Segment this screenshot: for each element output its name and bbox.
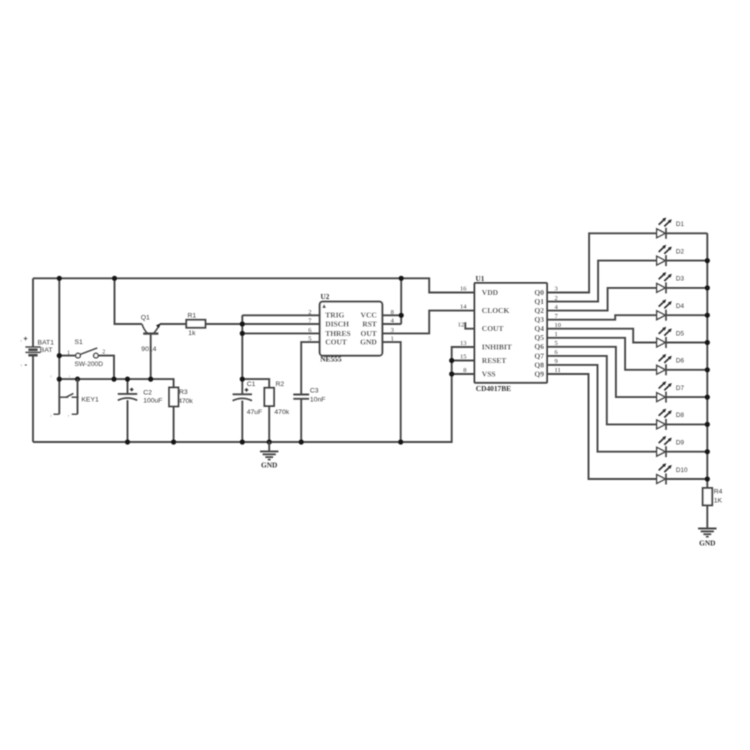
LED D7 <box>657 381 672 402</box>
wire U1 VSS pin8 stub <box>452 373 475 375</box>
label NE555 <box>320 355 342 364</box>
junction C2 node <box>125 377 130 382</box>
svg-text:VSS: VSS <box>482 369 496 378</box>
svg-text:C2: C2 <box>143 390 152 397</box>
wire Q1 emitter to R1 <box>160 323 187 325</box>
wire C2 bottom to ground rail <box>127 400 129 442</box>
svg-text:GND: GND <box>261 460 277 469</box>
label 9014 <box>141 346 156 353</box>
pushbutton KEY1 <box>54 379 79 414</box>
LED D6 <box>657 354 672 375</box>
svg-text:5: 5 <box>308 336 311 343</box>
label R2 <box>276 381 285 388</box>
U1 left pin names <box>482 288 512 379</box>
U1 left pin numbers <box>458 286 468 375</box>
LED D3 <box>657 272 672 293</box>
wire LED D9 cathode to right rail <box>666 451 707 453</box>
svg-text:COUT: COUT <box>325 338 347 347</box>
svg-text:1K: 1K <box>714 497 723 504</box>
svg-text:10nF: 10nF <box>310 397 326 404</box>
wire THRES to U2 pin6 <box>242 332 319 334</box>
svg-text:3: 3 <box>555 286 558 293</box>
junction ground rail / U2 GND <box>398 439 403 444</box>
label 1k <box>188 330 196 337</box>
capacitor C1 47uF electrolytic <box>233 388 252 401</box>
svg-text:2: 2 <box>308 309 311 316</box>
label C3 <box>310 387 319 394</box>
label D9 <box>676 440 685 447</box>
wire U1 Q6 to LED D7 anode <box>547 347 657 397</box>
junction top rail / S1 branch <box>57 276 62 281</box>
svg-text:1: 1 <box>391 336 394 343</box>
svg-text:470k: 470k <box>178 398 193 405</box>
wire U2 OUT pin3 to U1 CLOCK pin14 <box>382 311 474 334</box>
IC U1 CD4017BE body <box>475 283 548 383</box>
label 470k of R2 <box>274 409 289 416</box>
svg-text:8: 8 <box>463 367 466 374</box>
junction ground rail / C1 <box>240 439 245 444</box>
wire lower row to R3 <box>59 379 173 387</box>
label D1 <box>676 221 685 228</box>
wire Q1 base to lower row <box>150 334 152 380</box>
wire U2 VCC pin8 stub <box>382 314 401 316</box>
wire ground bottom rail <box>33 347 475 442</box>
label D6 <box>676 358 685 365</box>
svg-text:KEY1: KEY1 <box>81 397 99 404</box>
resistor R3 470k <box>169 388 178 407</box>
label 47uF <box>247 409 263 416</box>
svg-text:TRIG: TRIG <box>325 311 344 320</box>
svg-text:NE555: NE555 <box>320 355 342 364</box>
wire TRIG/THRES node vertical <box>241 315 243 394</box>
svg-text:2: 2 <box>102 349 105 355</box>
label BAT1 <box>38 340 55 347</box>
capacitor C3 10nF <box>293 395 309 399</box>
svg-text:10: 10 <box>555 322 562 329</box>
wire LED D7 cathode to right rail <box>666 396 707 398</box>
wire VCC top rail <box>33 278 475 292</box>
junction KEY1 right leg node <box>75 377 80 382</box>
junction top rail / VCC-RST branch <box>399 276 404 281</box>
label U1 <box>476 275 485 283</box>
wire LED D8 cathode to right rail <box>666 423 707 425</box>
svg-text:D6: D6 <box>676 358 685 365</box>
svg-text:Q4: Q4 <box>534 324 544 333</box>
wire R4 bottom to ground <box>706 505 708 528</box>
svg-text:Q9: Q9 <box>534 369 544 378</box>
svg-text:Q3: Q3 <box>534 315 544 324</box>
svg-text:Q1: Q1 <box>534 297 544 306</box>
resistor R2 470k <box>264 388 274 406</box>
U1 right pin names Q0-Q9 <box>534 288 544 379</box>
U2 right pin numbers 8 4 3 1 <box>391 309 395 343</box>
wire U1 Q5 to LED D6 anode <box>547 338 657 370</box>
resistor R4 1K <box>703 488 713 505</box>
svg-text:THRES: THRES <box>325 329 350 338</box>
svg-text:1: 1 <box>67 350 70 356</box>
svg-text:R3: R3 <box>179 389 188 396</box>
LED D2 <box>657 245 672 266</box>
label R4 <box>714 489 723 496</box>
junction right rail / D3 <box>705 285 710 290</box>
junction right rail / D4 <box>705 313 710 318</box>
wire VCC/RST vertical to top rail <box>400 278 402 324</box>
tiny pin marks near KEY1 and S1 nodes <box>21 339 72 418</box>
svg-text:GND: GND <box>360 338 377 347</box>
U2 left pin numbers 2 7 6 5 <box>308 309 312 343</box>
svg-text:2: 2 <box>555 295 558 302</box>
U2 left pin names <box>325 311 350 347</box>
svg-text:D4: D4 <box>676 303 685 310</box>
wire C1 bottom to ground rail <box>241 401 243 442</box>
svg-text:14: 14 <box>460 304 467 311</box>
LED D8 <box>657 409 672 430</box>
wire C2 top branch <box>127 379 129 394</box>
label S1 <box>75 339 84 346</box>
label GND right <box>699 538 715 547</box>
label R1 <box>188 312 197 319</box>
svg-text:D9: D9 <box>676 440 685 447</box>
svg-text:Q6: Q6 <box>534 342 544 351</box>
svg-text:D7: D7 <box>676 385 685 392</box>
wire left battery rail lower <box>32 355 34 442</box>
wire left battery rail upper <box>32 278 34 347</box>
U2 right pin names <box>360 311 377 347</box>
junction THRES node <box>240 331 245 336</box>
svg-text:U1: U1 <box>476 275 485 283</box>
svg-text:SW-200D: SW-200D <box>75 361 104 368</box>
LED D4 <box>657 299 672 320</box>
junction top rail / Q1 collector branch <box>112 276 117 281</box>
svg-text:Q0: Q0 <box>534 288 544 297</box>
wire U1 COUT pin12 stub <box>465 322 474 329</box>
svg-text:Q1: Q1 <box>141 315 150 322</box>
label D8 <box>676 412 685 419</box>
label D5 <box>676 330 685 337</box>
wire node to R2 branch <box>242 379 269 388</box>
wire U2 GND pin1 to ground rail <box>382 342 400 442</box>
wire LED D10 cathode to right rail <box>666 478 707 480</box>
wire R3 bottom to ground rail <box>173 406 175 442</box>
svg-text:DISCH: DISCH <box>325 319 349 328</box>
junction lower row left <box>57 377 62 382</box>
pin number 2 of S1 <box>102 349 105 355</box>
wire LED D4 cathode to right rail <box>666 314 707 316</box>
wire LED common right rail <box>706 233 708 488</box>
wire Q1 collector branch from top rail <box>115 278 142 324</box>
U1 right pin numbers <box>555 286 562 375</box>
svg-text:47uF: 47uF <box>247 409 263 416</box>
svg-text:Q2: Q2 <box>534 306 544 315</box>
svg-text:RESET: RESET <box>482 356 507 365</box>
label C2 <box>143 390 152 397</box>
IC U2 NE555 body <box>320 302 383 356</box>
pin number 1 of S1 <box>67 350 70 356</box>
ground symbol below R4 <box>698 529 716 537</box>
svg-text:VCC: VCC <box>361 311 377 320</box>
wire S1 pin2 to lower row <box>98 356 114 380</box>
wire LED D6 cathode to right rail <box>666 369 707 371</box>
label SW-200D <box>75 361 104 368</box>
junction VCC pin8 on vertical <box>399 313 404 318</box>
capacitor C2 100uF electrolytic <box>118 388 137 401</box>
svg-text:9014: 9014 <box>141 346 156 353</box>
svg-text:D10: D10 <box>676 467 688 474</box>
svg-text:Q7: Q7 <box>534 351 544 360</box>
label C1 <box>247 381 256 388</box>
wire TRIG to U2 pin2 <box>242 314 319 316</box>
wire S1 pin1 feed <box>59 355 75 357</box>
switch S1 SW-200D <box>76 348 99 358</box>
svg-text:9: 9 <box>555 358 558 365</box>
junction ground rail / C3 <box>299 439 304 444</box>
wire R1 to DISCH node <box>205 323 242 325</box>
label U2 <box>321 293 330 301</box>
wire U2 RST pin4 stub <box>382 323 401 325</box>
junction right rail / D9 <box>705 449 710 454</box>
label 100uF <box>143 397 162 404</box>
label D3 <box>676 276 685 283</box>
junction ground rail / C2 <box>125 439 130 444</box>
svg-text:Q5: Q5 <box>534 333 544 342</box>
junction ground rail / R3 <box>171 439 176 444</box>
wire U2 COUT pin5 to C3 <box>301 342 320 394</box>
svg-text:12: 12 <box>458 322 465 329</box>
svg-text:+: + <box>24 336 28 343</box>
svg-text:C3: C3 <box>310 387 319 394</box>
wire U1 Q9 to LED D10 anode <box>547 374 657 479</box>
label Q1 <box>141 315 150 322</box>
junction right rail / D6 <box>705 367 710 372</box>
wire R2 bottom to ground rail <box>268 406 270 442</box>
svg-text:BAT: BAT <box>40 347 53 354</box>
junction R1 / DISCH node <box>240 321 245 326</box>
svg-text:R1: R1 <box>188 312 197 319</box>
wire U1 Q1 to LED D2 anode <box>547 261 657 302</box>
wire U1 Q0 to LED D1 anode <box>547 233 657 292</box>
svg-text:470k: 470k <box>274 409 289 416</box>
svg-text:Q8: Q8 <box>534 360 544 369</box>
resistor R1 1k <box>186 320 205 328</box>
svg-text:C1: C1 <box>247 381 256 388</box>
junction ground rail / R2/GND <box>267 439 272 444</box>
svg-text:RST: RST <box>362 319 377 328</box>
transistor Q1 9014 NPN <box>142 323 161 333</box>
wire U1 Q2 to LED D3 anode <box>547 288 657 311</box>
svg-text:U2: U2 <box>321 293 330 301</box>
svg-text:100uF: 100uF <box>143 397 162 404</box>
wire LED D5 cathode to right rail <box>666 342 707 344</box>
label D2 <box>676 248 685 255</box>
wire U1 RESET pin15 stub <box>452 360 475 362</box>
junction U1 VSS on vertical <box>449 371 454 376</box>
wire LED D1 cathode to right rail <box>666 232 707 234</box>
svg-text:11: 11 <box>555 367 561 374</box>
wire LED D2 cathode to right rail <box>666 260 707 262</box>
junction C1 / R2 node <box>240 377 245 382</box>
label R3 <box>179 389 188 396</box>
LED D10 <box>657 463 672 484</box>
label D10 <box>676 467 688 474</box>
svg-text:INHIBIT: INHIBIT <box>482 342 512 351</box>
junction S1 pin1 node <box>57 353 62 358</box>
wire DISCH to U2 pin7 <box>242 323 319 325</box>
junction right rail / D10 <box>705 476 710 481</box>
label 1K <box>714 497 723 504</box>
svg-text:3: 3 <box>391 327 394 334</box>
label GND middle <box>261 460 277 469</box>
pin1 marker triangle of U2 <box>322 304 326 308</box>
label D7 <box>676 385 685 392</box>
junction S1 pin2 drop node <box>111 377 116 382</box>
label 10nF <box>310 397 326 404</box>
wire LED D3 cathode to right rail <box>666 287 707 289</box>
svg-text:VDD: VDD <box>482 288 499 297</box>
wire U1 Q4 to LED D5 anode <box>547 329 657 343</box>
svg-text:13: 13 <box>460 340 467 347</box>
wire S1/KEY1 left vertical from top rail <box>58 278 60 414</box>
svg-text:COUT: COUT <box>482 324 504 333</box>
svg-text:BAT1: BAT1 <box>38 340 55 347</box>
svg-text:GND: GND <box>699 538 715 547</box>
svg-text:R2: R2 <box>276 381 285 388</box>
svg-text:-: - <box>25 360 28 369</box>
ground symbol below R2 node <box>260 442 278 460</box>
svg-text:16: 16 <box>460 286 467 293</box>
svg-text:R4: R4 <box>714 489 723 496</box>
junction Q1 base node <box>148 377 153 382</box>
svg-text:D8: D8 <box>676 412 685 419</box>
svg-text:8: 8 <box>391 309 394 316</box>
junction right rail / D7 <box>705 395 710 400</box>
battery BAT1 <box>24 336 41 369</box>
junction right rail / D8 <box>705 422 710 427</box>
label BAT <box>40 347 53 354</box>
svg-text:S1: S1 <box>75 339 84 346</box>
svg-text:15: 15 <box>460 354 467 361</box>
LED D9 <box>657 436 672 457</box>
wire U1 Q8 to LED D9 anode <box>547 365 657 452</box>
label 470k of R3 <box>178 398 193 405</box>
LED D1 <box>657 218 672 239</box>
wire U1 Q3 to LED D4 anode <box>547 315 657 320</box>
label D4 <box>676 303 685 310</box>
svg-text:1k: 1k <box>188 330 196 337</box>
svg-text:OUT: OUT <box>361 329 377 338</box>
LED D5 <box>657 327 672 348</box>
wire U1 Q7 to LED D8 anode <box>547 356 657 425</box>
svg-text:5: 5 <box>555 340 558 347</box>
svg-text:CLOCK: CLOCK <box>482 306 510 315</box>
label KEY1 <box>81 397 99 404</box>
junction right rail / D5 <box>705 340 710 345</box>
svg-text:D3: D3 <box>676 276 685 283</box>
svg-text:D1: D1 <box>676 221 685 228</box>
svg-text:CD4017BE: CD4017BE <box>476 384 511 393</box>
junction U1 RESET on vertical <box>449 358 454 363</box>
svg-text:D5: D5 <box>676 330 685 337</box>
svg-text:1: 1 <box>555 331 558 338</box>
svg-text:D2: D2 <box>676 248 685 255</box>
label CD4017BE <box>476 384 511 393</box>
junction right rail / D2 <box>705 258 710 263</box>
wire C3 bottom to ground rail <box>300 399 302 442</box>
